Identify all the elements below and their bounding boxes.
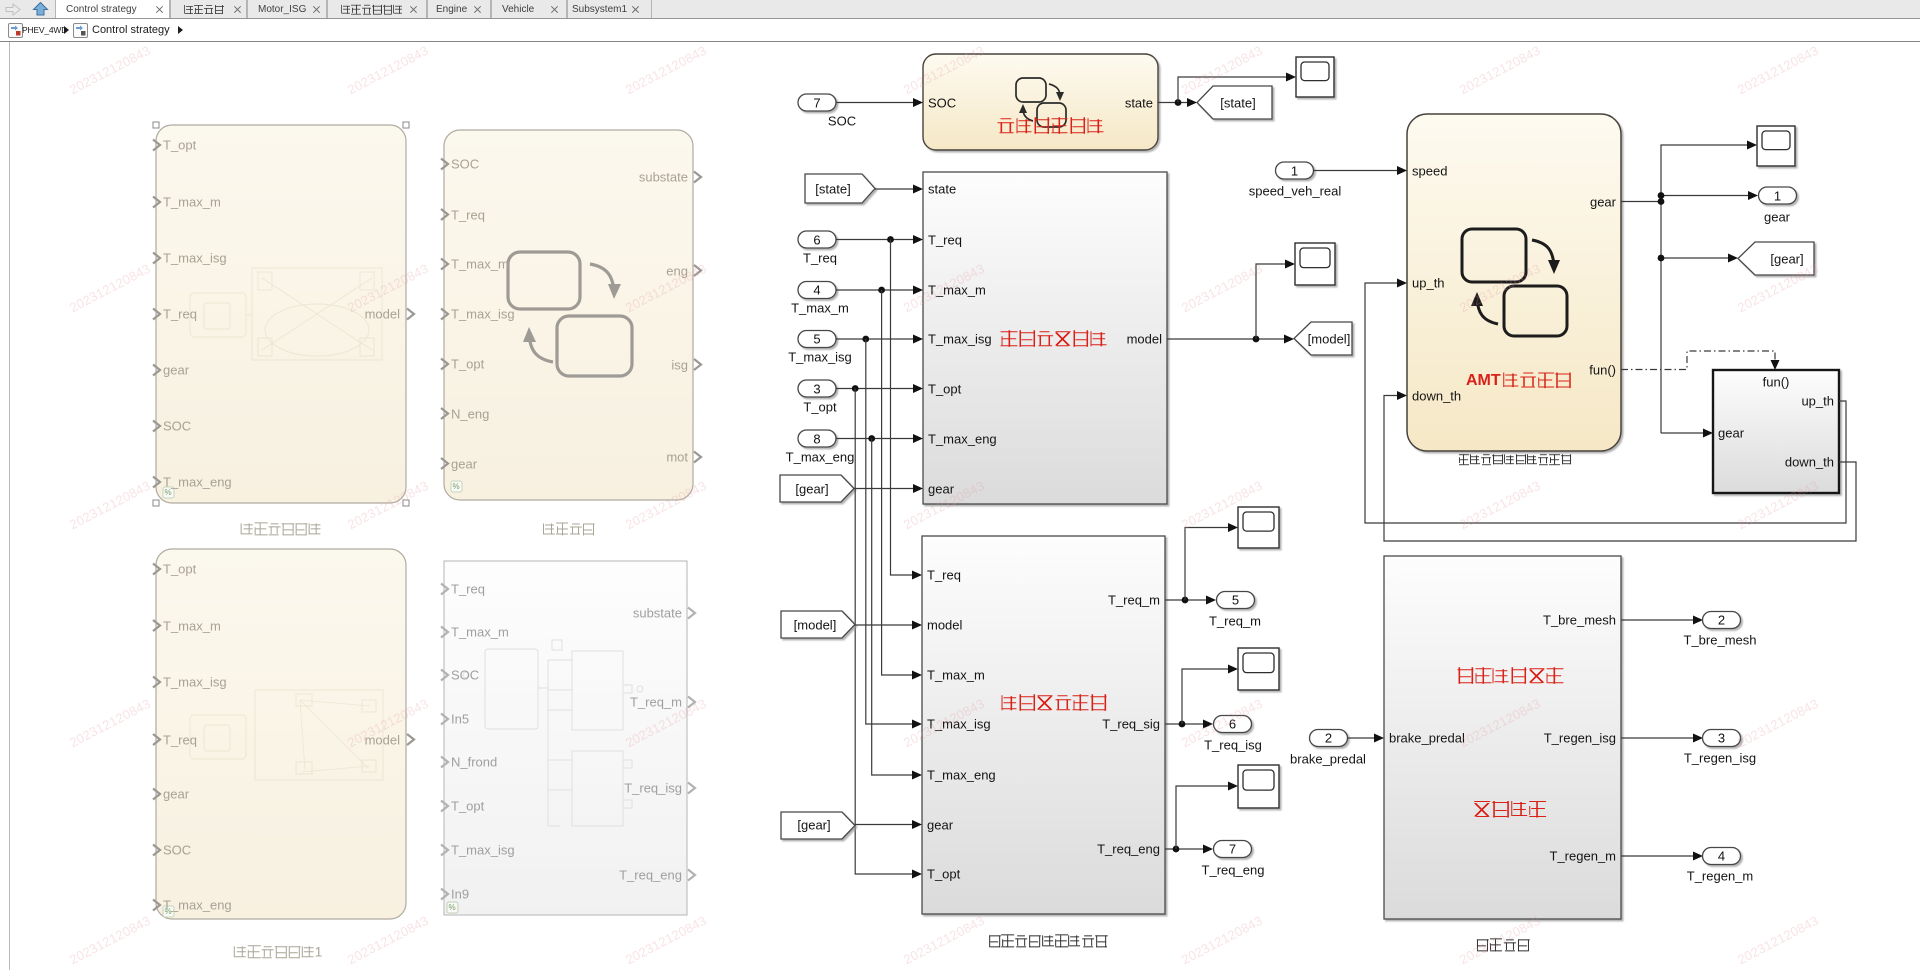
wire state output: [1158, 102, 1191, 104]
inport 2 brake_predal: [1310, 730, 1348, 747]
outport 6 T_req_isg: [1214, 716, 1252, 733]
goto [model]: [1294, 322, 1352, 355]
outport 1 gear: [1759, 187, 1797, 204]
inport 1 speed_veh_real: [1276, 162, 1314, 179]
subsystem 驱动模式判断1 (faded): [153, 549, 414, 919]
chart block AMT换挡策略: [1407, 114, 1621, 451]
inport 6: [798, 231, 836, 248]
breadcrumb bar: [0, 19, 1920, 42]
goto [state]: [1197, 86, 1272, 119]
wire T_req_m out: [1165, 599, 1210, 601]
outport 7 T_req_eng: [1214, 841, 1252, 858]
subsystem 制动模式: [1384, 556, 1621, 919]
chart block 整车状态判断: [923, 54, 1158, 150]
dark CJK sublabels: [1458, 454, 1572, 465]
subsystem unnamed gray (faded): [441, 561, 695, 915]
wire down_th return loop: [1384, 396, 1856, 542]
selection handles: [153, 122, 159, 128]
% badges text: [165, 488, 172, 497]
outport 2 T_bre_mesh: [1703, 612, 1741, 629]
wire fun() dash-dot: [1621, 351, 1775, 370]
from [state]: [805, 174, 875, 203]
scope (state): [1296, 57, 1334, 97]
outport 4 T_regen_m: [1703, 848, 1741, 865]
from [model] 2: [781, 611, 855, 638]
inport 8: [798, 430, 836, 447]
from [gear]: [780, 475, 854, 502]
vertical bus wires down to 扭矩分配策略: [891, 240, 917, 576]
subsystem 扭矩分配策略: [922, 536, 1165, 914]
port and signal labels: [163, 138, 196, 153]
canvas left border: [9, 42, 10, 970]
wire gear out bus: [1621, 201, 1661, 203]
subsystem 驱动模式 (faded chart): [441, 130, 701, 500]
function-call subsystem: [1713, 370, 1839, 493]
wire T_req_eng out: [1165, 848, 1207, 850]
wire T_req_sig out: [1165, 723, 1207, 725]
scope (gear): [1757, 126, 1795, 166]
wire up_th return loop: [1365, 283, 1846, 523]
goto [gear]: [1738, 242, 1814, 275]
red CJK titles: [998, 117, 1105, 135]
inport 3: [798, 380, 836, 397]
tabs: [55, 0, 172, 18]
subsystem 工作模式判断: [923, 172, 1167, 504]
inport 4: [798, 282, 836, 299]
scope T_req_m: [1238, 507, 1279, 548]
wire SOC: [836, 102, 917, 104]
tab bar: [0, 0, 1920, 19]
wire T_regen_isg: [1621, 737, 1697, 739]
inport 7 SOC: [798, 94, 836, 111]
subsystem 驱动模式判断 (faded): [153, 125, 414, 503]
outport 5 T_req_m: [1217, 592, 1255, 609]
wire T_bre_mesh: [1621, 619, 1697, 621]
wire T_regen_m: [1621, 855, 1697, 857]
faded CJK sublabels: [241, 522, 322, 535]
nav arrows: [0, 0, 54, 18]
scope T_req_isg: [1238, 648, 1279, 690]
watermark grid: [67, 43, 153, 97]
scope (model): [1295, 243, 1335, 285]
wire model output: [1167, 338, 1288, 340]
scope T_req_eng: [1238, 765, 1279, 808]
from [gear] 2: [781, 812, 855, 839]
inport 5: [798, 331, 836, 348]
outport 3 T_regen_isg: [1703, 730, 1741, 747]
wires inports to block with branch junctions: [836, 239, 917, 241]
